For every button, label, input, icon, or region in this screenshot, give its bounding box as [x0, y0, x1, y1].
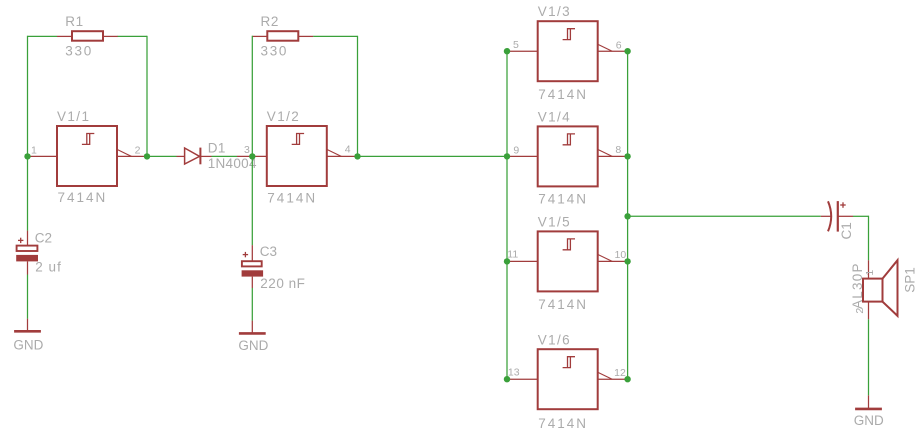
- svg-text:GND: GND: [238, 338, 268, 353]
- node junction at pin12: [624, 376, 630, 382]
- svg-text:2: 2: [854, 308, 866, 314]
- svg-text:C1: C1: [839, 222, 854, 239]
- svg-text:AL30P: AL30P: [850, 262, 865, 309]
- svg-text:330: 330: [65, 44, 93, 59]
- node junction at pin9: [504, 153, 510, 159]
- svg-text:D1: D1: [208, 140, 226, 155]
- speaker SP1: [863, 260, 898, 319]
- node junction at pin1: [24, 153, 30, 159]
- svg-text:V1/6: V1/6: [538, 332, 571, 347]
- svg-text:R2: R2: [261, 14, 279, 29]
- svg-text:220 nF: 220 nF: [260, 276, 305, 291]
- wire: R2 right to corner: [313, 35, 357, 37]
- svg-text:8: 8: [615, 144, 621, 156]
- wire: corner down to pin4 junction: [357, 36, 359, 157]
- wire: R1 right to corner: [118, 35, 147, 37]
- resistor R2: [252, 31, 313, 41]
- svg-text:V1/5: V1/5: [538, 214, 571, 229]
- svg-text:1: 1: [31, 144, 37, 156]
- svg-text:7414N: 7414N: [538, 297, 588, 312]
- node junction at output tap: [624, 213, 630, 219]
- capacitor C1 (polarized, rotated): [821, 201, 853, 232]
- svg-text:V1/3: V1/3: [538, 4, 571, 19]
- svg-text:10: 10: [615, 249, 627, 261]
- node junction at pin4 net: [354, 153, 360, 159]
- svg-text:C3: C3: [260, 244, 277, 259]
- svg-text:6: 6: [616, 39, 622, 51]
- wire: output row to C1: [628, 215, 821, 217]
- svg-text:V1/4: V1/4: [538, 109, 571, 124]
- node junction at pin10: [624, 258, 630, 264]
- wire: net left vertical (R1 left / pin1 / C2): [27, 36, 29, 231]
- svg-text:GND: GND: [13, 337, 43, 352]
- svg-text:4: 4: [345, 143, 351, 155]
- op-amp/inverter gate V1/2 (7414N schmitt): [237, 126, 358, 186]
- op-amp/inverter gate V1/1 (7414N schmitt): [28, 126, 148, 186]
- wire: right vertical down to pin2: [146, 36, 148, 157]
- svg-text:12: 12: [614, 367, 626, 379]
- svg-text:330: 330: [261, 44, 289, 59]
- wire: SP1 pin2 down to GND: [868, 319, 870, 395]
- node junction at pin11: [504, 258, 510, 264]
- svg-text:SP1: SP1: [903, 267, 918, 293]
- svg-text:2 uf: 2 uf: [35, 259, 62, 274]
- node junction at pin8: [624, 153, 630, 159]
- svg-text:V1/1: V1/1: [57, 109, 90, 124]
- wire: left input rail: [506, 51, 508, 379]
- capacitor C2 (polarized): [16, 231, 38, 275]
- svg-text:7414N: 7414N: [538, 416, 588, 431]
- svg-text:13: 13: [508, 366, 520, 378]
- node junction at pin2 net: [144, 153, 150, 159]
- wire: net left loop top: [28, 35, 58, 37]
- svg-text:GND: GND: [854, 413, 884, 428]
- wire: C1 to corner: [853, 215, 869, 217]
- node junction at pin3 net: [249, 153, 255, 159]
- svg-text:7414N: 7414N: [267, 190, 317, 205]
- resistor R1: [57, 31, 118, 41]
- op-amp/inverter gate V1/5 (7414N schmitt): [507, 231, 628, 291]
- op-amp/inverter gate V1/4 (7414N schmitt): [507, 126, 628, 186]
- diode D1: [177, 148, 212, 165]
- svg-text:R1: R1: [65, 14, 83, 29]
- wire: R2/C3 vertical: [251, 36, 253, 245]
- ground symbol below C2: [14, 319, 41, 332]
- wire: diode cathode to pin3: [212, 155, 238, 157]
- wire: right output rail: [627, 51, 629, 379]
- node junction at pin5: [504, 48, 510, 54]
- svg-text:C2: C2: [35, 230, 52, 245]
- wire: corner down to SP1 pin1: [868, 216, 870, 261]
- svg-text:9: 9: [513, 144, 519, 156]
- svg-text:11: 11: [507, 248, 518, 260]
- wire: C2 bottom to GND: [27, 275, 29, 319]
- svg-text:2: 2: [135, 145, 141, 157]
- svg-text:V1/2: V1/2: [267, 109, 300, 124]
- svg-text:3: 3: [244, 144, 250, 156]
- svg-text:5: 5: [513, 39, 519, 51]
- svg-text:7414N: 7414N: [58, 190, 108, 205]
- op-amp/inverter gate V1/3 (7414N schmitt): [507, 21, 628, 81]
- svg-text:7414N: 7414N: [538, 87, 588, 102]
- svg-text:7414N: 7414N: [538, 192, 588, 207]
- node junction at pin6: [624, 48, 630, 54]
- ground symbol below SP1: [855, 395, 882, 409]
- wire: pin4 to gate stack input: [358, 155, 508, 157]
- wire: pin2 junction to diode anode: [147, 155, 177, 157]
- op-amp/inverter gate V1/6 (7414N schmitt): [507, 349, 628, 409]
- wire: C3 bottom to GND: [251, 288, 253, 321]
- svg-text:1: 1: [864, 270, 876, 276]
- ground symbol below C3: [239, 321, 266, 334]
- node junction at pin13: [504, 376, 510, 382]
- capacitor C3 (polarized): [242, 245, 264, 288]
